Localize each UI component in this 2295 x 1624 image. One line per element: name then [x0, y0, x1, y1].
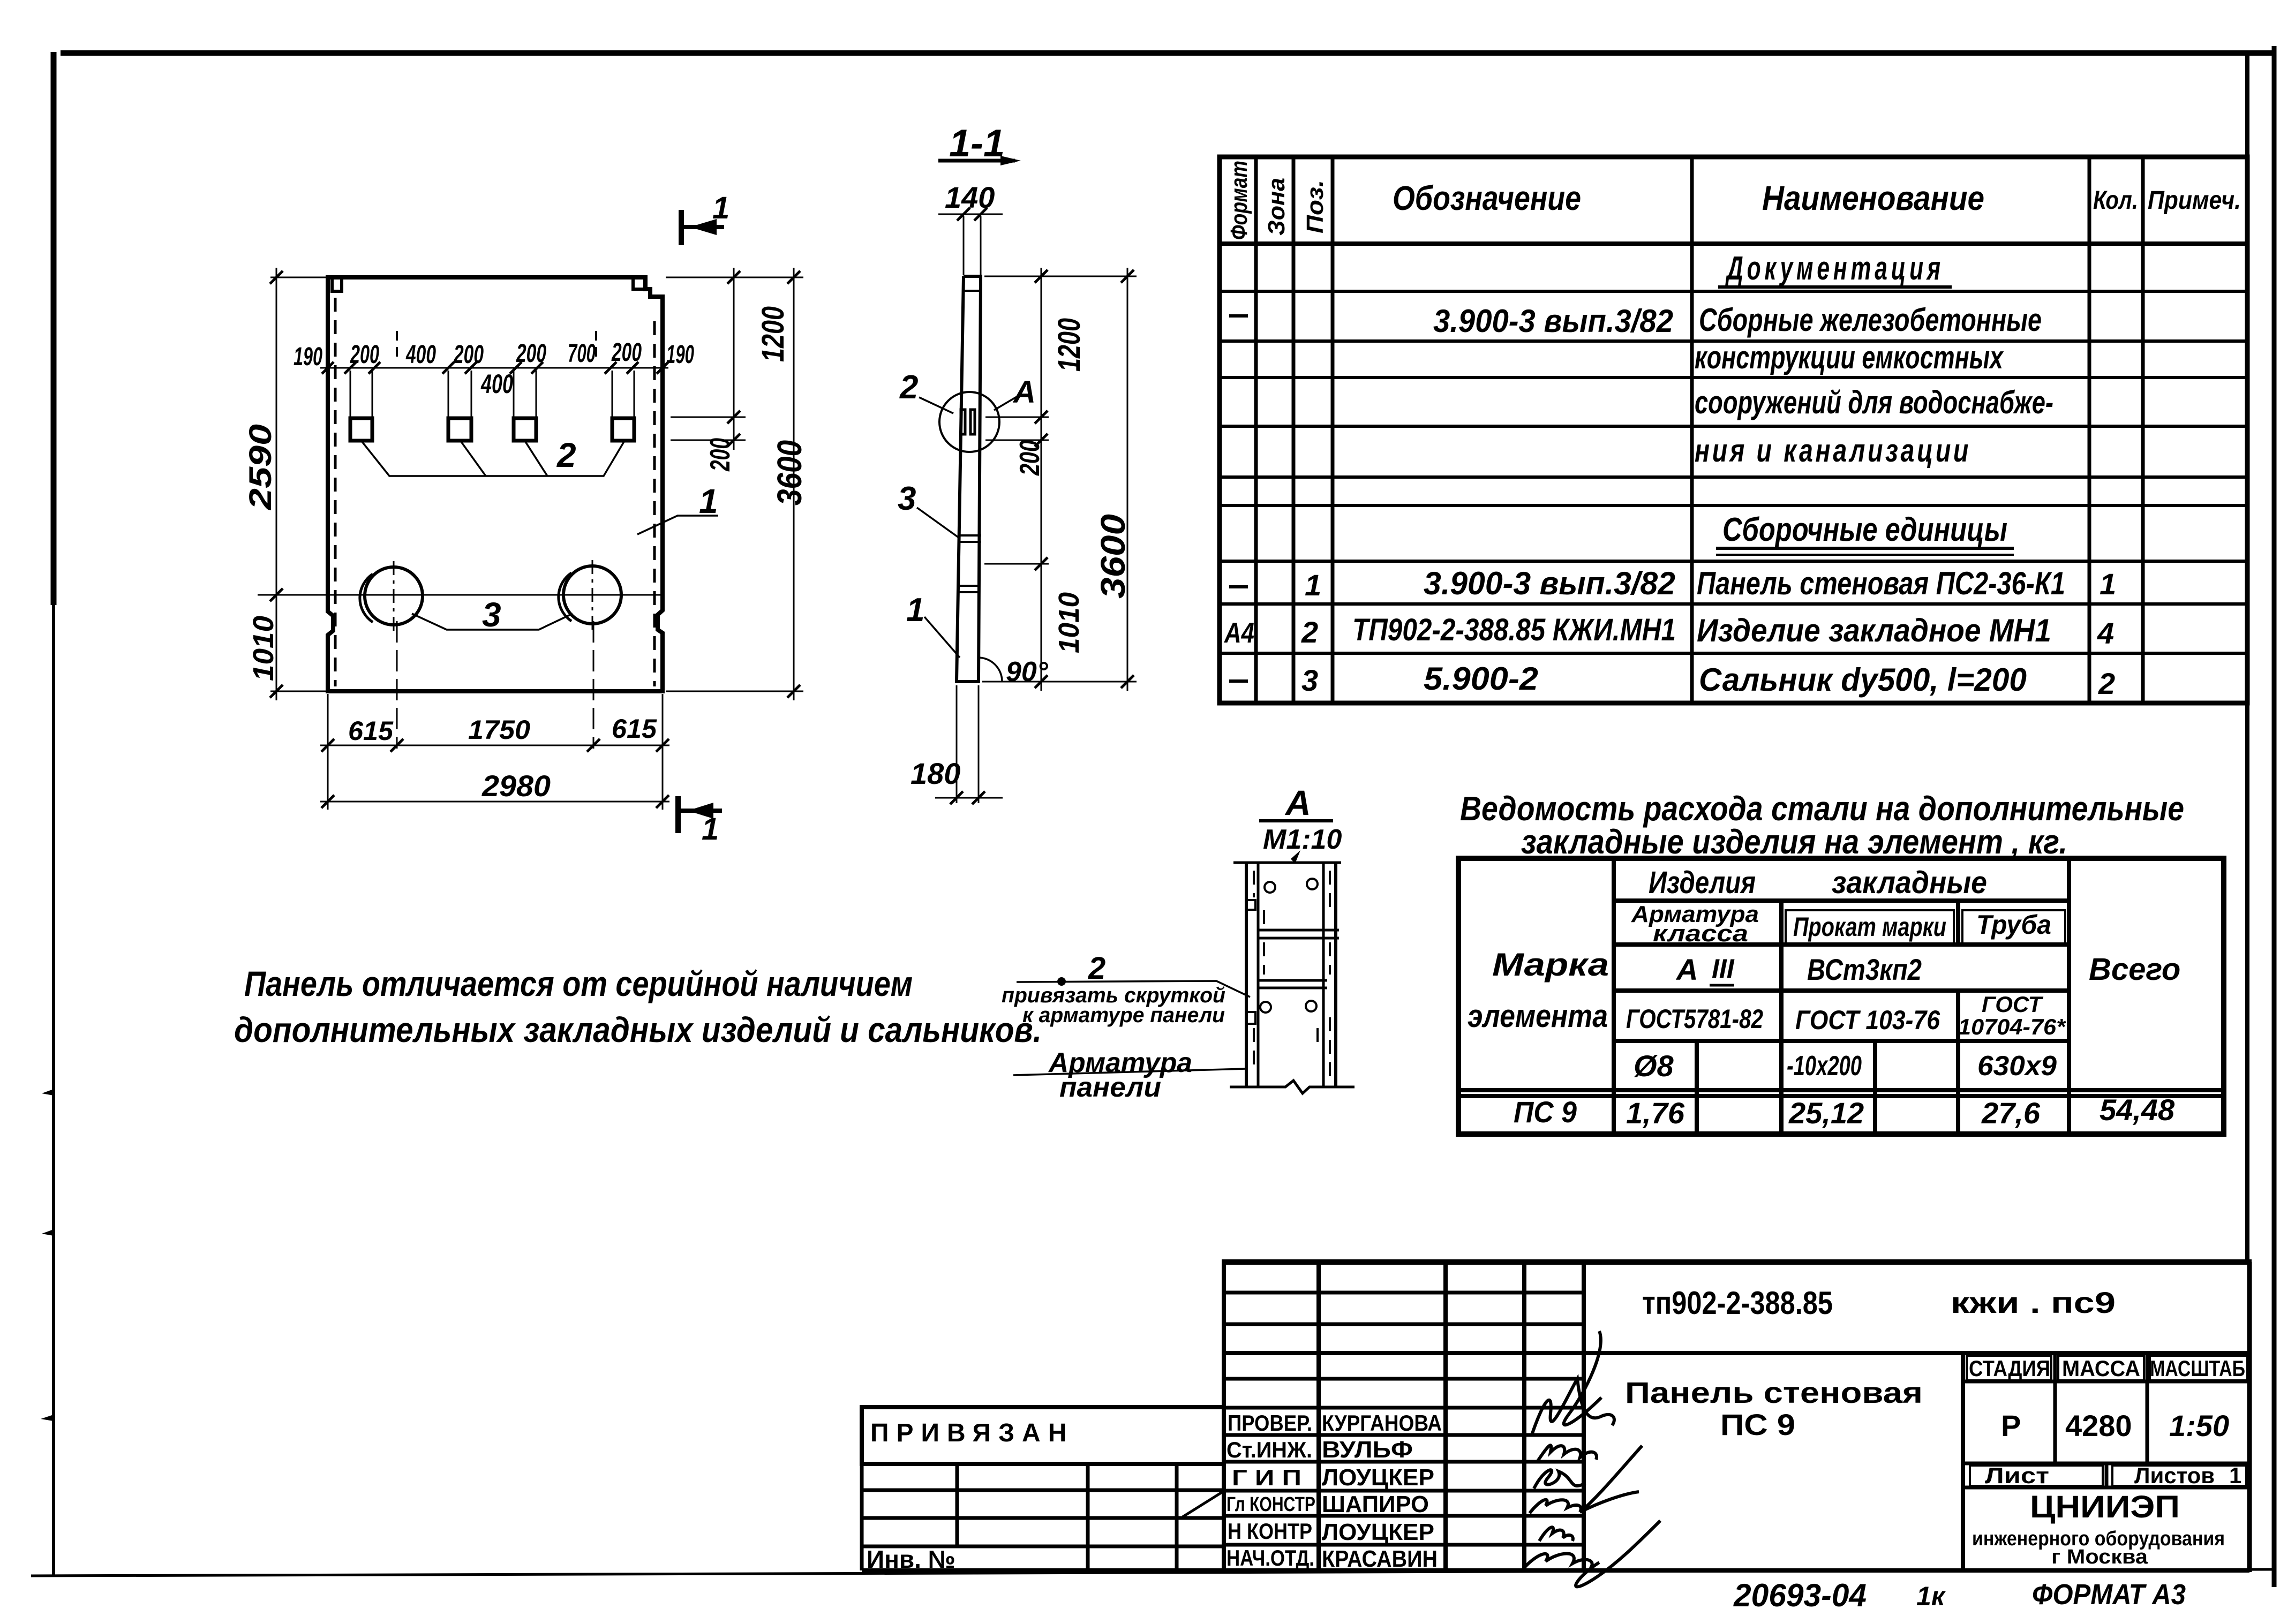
svg-text:конструкции емкостных: конструкции емкостных [1695, 339, 2004, 375]
underline arrow [1000, 156, 1021, 165]
right inner dim extensions [982, 276, 1137, 682]
svg-text:ГОСТ5781-82: ГОСТ5781-82 [1626, 1004, 1763, 1034]
centerline through holes [258, 594, 664, 596]
right inner dim line [1041, 268, 1042, 691]
leader 2 detail [1017, 981, 1250, 997]
svg-text:тп902-2-388.85: тп902-2-388.85 [1642, 1285, 1833, 1321]
svg-text:ПРИВЯЗАН: ПРИВЯЗАН [870, 1419, 1074, 1447]
section mark bottom [678, 796, 722, 847]
panel left dashed edge [334, 298, 337, 686]
svg-text:25,12: 25,12 [1788, 1096, 1864, 1130]
right dim extension y822 [671, 440, 746, 441]
stadia column divider [1961, 1353, 1965, 1570]
svg-text:1: 1 [712, 191, 729, 225]
svg-text:2: 2 [899, 369, 918, 406]
signature krasavin [1523, 1554, 1592, 1569]
left dim extension top [270, 277, 331, 278]
svg-text:1: 1 [2229, 1463, 2241, 1488]
spec verticals [1256, 157, 2143, 703]
svg-text:Всего: Всего [2089, 952, 2180, 987]
svg-text:3600: 3600 [770, 440, 809, 505]
extension 140 to wall [963, 216, 965, 275]
svg-text:Обозначение: Обозначение [1393, 179, 1581, 217]
svg-text:ШАПИРО: ШАПИРО [1322, 1491, 1429, 1517]
flourish long 3 [1576, 1521, 1660, 1587]
SECTION: bottom annotations [1733, 1577, 2186, 1613]
sealing mark upper [959, 535, 981, 542]
SECTION: title block [862, 1262, 2252, 1587]
svg-text:Панель отличается от серийной: Панель отличается от серийной наличием [244, 964, 913, 1003]
top dim line [320, 367, 668, 369]
right dim line 1200/200 [733, 268, 735, 450]
rebar circle top left [1265, 882, 1275, 893]
detail column right outer [1334, 863, 1337, 1087]
right outer dim line 3600 [1127, 268, 1128, 691]
spec outer frame [1220, 157, 2247, 703]
svg-text:3: 3 [1301, 663, 1318, 697]
svg-text:Ø8: Ø8 [1634, 1049, 1674, 1083]
svg-text:закладные: закладные [1832, 865, 1987, 900]
svg-text:1200: 1200 [1052, 318, 1087, 372]
diagonal mark [1183, 1492, 1223, 1517]
svg-text:1200: 1200 [756, 306, 791, 362]
steel horizontals [1458, 901, 2224, 1096]
svg-text:Марка: Марка [1492, 947, 1609, 983]
detail bottom line with break [1230, 1081, 1355, 1093]
dim 180 line [935, 797, 1003, 799]
leader plate 2c [525, 442, 547, 476]
svg-text:1: 1 [2100, 567, 2116, 601]
svg-text:Г И П: Г И П [1232, 1465, 1301, 1490]
svg-text:Документация: Документация [1725, 250, 1944, 287]
svg-text:панели: панели [1059, 1072, 1161, 1103]
inner dashes [1254, 871, 1330, 1076]
embed plate 2a [350, 418, 372, 441]
svg-text:ФОРМАТ А3: ФОРМАТ А3 [2032, 1578, 2186, 1611]
top dim ticks [322, 362, 668, 374]
row line under doc number [1224, 1351, 2249, 1355]
spec header bottom [1220, 241, 2247, 246]
spec row lines [1220, 291, 2247, 653]
svg-text:дополнительных закладных издел: дополнительных закладных изделий и сальн… [234, 1010, 1042, 1049]
center dash marks [396, 331, 398, 358]
detail column left outer [1245, 863, 1248, 1087]
right dim line 3600 [793, 268, 795, 700]
rung 2 [1259, 980, 1327, 988]
detail circle A [939, 392, 999, 452]
svg-text:2: 2 [2098, 667, 2115, 700]
svg-text:90°: 90° [1006, 656, 1049, 688]
svg-text:200: 200 [350, 341, 379, 369]
extension from holes to bottom dims [396, 621, 398, 749]
svg-text:Н КОНТР: Н КОНТР [1228, 1519, 1312, 1544]
left notch upper [1247, 900, 1255, 910]
svg-text:ВУЛЬФ: ВУЛЬФ [1322, 1437, 1413, 1463]
svg-text:Сборочные единицы: Сборочные единицы [1722, 511, 2007, 548]
bottom dim ticks 2 [321, 795, 669, 808]
svg-text:2: 2 [1088, 951, 1105, 986]
detail top line [1233, 862, 1341, 864]
svg-text:1:50: 1:50 [2169, 1409, 2229, 1442]
svg-text:Ст.ИНЖ.: Ст.ИНЖ. [1226, 1437, 1312, 1462]
svg-text:54,48: 54,48 [2100, 1093, 2175, 1127]
wall top cap tick [962, 290, 982, 292]
svg-text:Гл КОНСТР: Гл КОНСТР [1226, 1493, 1315, 1516]
signature vulf [1537, 1445, 1597, 1462]
svg-text:1750: 1750 [468, 715, 530, 745]
leader plate 2b [461, 442, 486, 476]
svg-text:2590: 2590 [243, 424, 278, 510]
svg-text:190: 190 [294, 343, 322, 371]
svg-text:3600: 3600 [1094, 514, 1132, 599]
left dim extension bottom [270, 691, 331, 692]
top dim extension lines to plates [350, 371, 634, 417]
margin tick 2 [42, 1229, 54, 1236]
svg-text:А: А [1012, 375, 1036, 410]
leader holes to label 3 [412, 614, 573, 630]
leader plates to label 2 [362, 442, 624, 476]
underline sborochnye [1716, 547, 2014, 550]
svg-text:1010: 1010 [247, 616, 280, 681]
svg-text:ГОСТ 103-76: ГОСТ 103-76 [1795, 1005, 1940, 1035]
svg-text:1к: 1к [1916, 1581, 1946, 1611]
signature shapiro [1530, 1500, 1581, 1513]
hole circle left [365, 567, 423, 625]
border left thick upper part [51, 52, 57, 605]
svg-text:4280: 4280 [2065, 1409, 2132, 1442]
label 1 leader [637, 516, 718, 534]
svg-text:2980: 2980 [481, 769, 551, 803]
SECTION: section 1-1 [898, 122, 1137, 804]
svg-text:элемента: элемента [1468, 998, 1608, 1034]
svg-text:СТАДИЯ: СТАДИЯ [1969, 1356, 2050, 1381]
title block top [1222, 1259, 2252, 1265]
svg-text:Изделие закладное МН1: Изделие закладное МН1 [1697, 613, 2051, 648]
rung 1 [1259, 930, 1339, 938]
svg-text:Панель стеновая: Панель стеновая [1625, 1376, 1923, 1409]
svg-text:4: 4 [2097, 616, 2114, 650]
leader 3 section [917, 508, 959, 538]
ticks 3600 [787, 271, 800, 698]
svg-text:ПРОВЕР.: ПРОВЕР. [1228, 1410, 1312, 1436]
border right inner [2245, 54, 2249, 1264]
left notch lower [1247, 1012, 1255, 1024]
dim 140 line [938, 214, 1003, 215]
svg-text:615: 615 [612, 714, 657, 744]
detail column left inner [1257, 863, 1260, 1087]
svg-text:5.900-2: 5.900-2 [1424, 661, 1538, 697]
bottom dim ticks 1 [321, 739, 669, 752]
svg-text:класса: класса [1653, 920, 1748, 947]
extension 180 [956, 685, 958, 803]
svg-text:200: 200 [1014, 440, 1045, 476]
svg-text:10704-76*: 10704-76* [1958, 1014, 2066, 1039]
underline dokumentacia [1718, 285, 1952, 289]
left grid horizontals [862, 1490, 1224, 1546]
svg-text:ПС 9: ПС 9 [1720, 1408, 1795, 1441]
svg-text:М1:10: М1:10 [1263, 824, 1342, 855]
row10 dash [1229, 679, 1248, 683]
svg-text:3.900-3 вып.3/82: 3.900-3 вып.3/82 [1424, 565, 1675, 601]
bottom dim line 2 [320, 801, 669, 803]
extension panel edges down [327, 694, 329, 810]
bottom dim line 1 [320, 745, 669, 746]
svg-text:2: 2 [1301, 615, 1318, 649]
svg-text:Наименование: Наименование [1762, 179, 1984, 217]
flourish long 1 [1564, 1331, 1601, 1425]
SECTION: detail A and note [234, 783, 1355, 1103]
svg-text:200: 200 [611, 338, 642, 367]
sealing mark lower [958, 586, 980, 592]
svg-text:НАЧ.ОТД.: НАЧ.ОТД. [1226, 1545, 1314, 1570]
detail top arrow [1291, 850, 1300, 864]
rebar circle top right [1307, 879, 1318, 889]
svg-text:А: А [1284, 783, 1311, 822]
stadia grid [1963, 1353, 2249, 1487]
svg-text:ВСт3кп2: ВСт3кп2 [1807, 953, 1922, 986]
embed plate 2d [612, 418, 634, 441]
svg-text:к арматуре панели: к арматуре панели [1022, 1003, 1225, 1027]
wall outline [957, 276, 981, 682]
SECTION: steel table [1458, 789, 2224, 1134]
svg-text:КРАСАВИН: КРАСАВИН [1322, 1546, 1438, 1572]
border top [61, 50, 2276, 56]
svg-text:Поз.: Поз. [1302, 180, 1328, 233]
svg-text:Кол.: Кол. [2093, 186, 2138, 215]
svg-text:Изделия: Изделия [1649, 865, 1756, 900]
SECTION: specification table [1220, 157, 2247, 703]
panel outline [328, 277, 663, 691]
svg-text:-10х200: -10х200 [1787, 1051, 1862, 1082]
svg-text:1: 1 [906, 592, 924, 629]
svg-text:1: 1 [1305, 568, 1321, 602]
svg-text:200: 200 [516, 339, 546, 368]
svg-text:700: 700 [568, 339, 596, 368]
embedded item in wall [961, 410, 965, 434]
armatura leader line [1013, 1069, 1246, 1075]
border left [52, 52, 55, 1576]
svg-text:кжи . пс9: кжи . пс9 [1951, 1286, 2116, 1319]
stadia header inner boxes [1967, 1356, 2247, 1486]
right dim extension y779 [671, 417, 746, 418]
central grid horizontals [1224, 1293, 1584, 1545]
leader dot [1057, 977, 1066, 986]
svg-text:ГОСТ: ГОСТ [1982, 992, 2044, 1017]
svg-text:Сборные железобетонные: Сборные железобетонные [1699, 302, 2042, 338]
svg-text:г Москва: г Москва [2051, 1546, 2148, 1568]
svg-text:3.900-3 вып.3/82: 3.900-3 вып.3/82 [1433, 303, 1673, 339]
steel verticals [1614, 858, 2069, 1134]
panel top-left notch tab [332, 277, 342, 291]
signature louker1 [1534, 1470, 1585, 1489]
left dim line [276, 268, 277, 700]
svg-text:Р: Р [2001, 1409, 2021, 1442]
svg-text:Листов: Листов [2134, 1463, 2215, 1488]
border right outer [2272, 46, 2277, 1587]
detail column right inner [1322, 863, 1325, 1087]
rebar circle mid left [1260, 1002, 1271, 1013]
svg-text:190: 190 [666, 341, 694, 369]
svg-text:3: 3 [482, 595, 501, 634]
signature louker2 [1539, 1527, 1573, 1541]
svg-text:1-1: 1-1 [949, 122, 1005, 165]
hole left vertical centerline [393, 561, 395, 632]
svg-text:400: 400 [405, 341, 436, 369]
svg-text:3: 3 [898, 480, 916, 517]
prokat/truba inner boxes [1786, 910, 1954, 943]
svg-text:МАСШТАБ: МАСШТАБ [2150, 1356, 2245, 1381]
svg-text:1: 1 [699, 482, 718, 520]
row2 dash [1229, 314, 1248, 318]
svg-text:ЦНИИЭП: ЦНИИЭП [2030, 1490, 2180, 1524]
svg-text:ПС 9: ПС 9 [1514, 1095, 1577, 1129]
right dim extension bottom [666, 691, 803, 692]
right dim extension y516 [666, 277, 803, 278]
svg-text:630х9: 630х9 [1977, 1051, 2057, 1082]
left grid verticals [862, 1464, 1177, 1570]
leader 1 section [924, 617, 960, 658]
panel right dashed edge [653, 321, 656, 686]
title block bottom [862, 1568, 2249, 1573]
leader A section [994, 396, 1018, 410]
svg-text:ЛОУЦКЕР: ЛОУЦКЕР [1322, 1464, 1434, 1491]
svg-text:400: 400 [480, 369, 513, 399]
detail title underline [1259, 819, 1333, 822]
svg-text:200: 200 [705, 438, 736, 472]
hole right vertical centerline [592, 560, 593, 631]
embed plate 2b [448, 418, 471, 441]
margin tick 1 [42, 1089, 54, 1096]
section mark top [681, 191, 729, 245]
svg-text:180: 180 [911, 757, 960, 790]
svg-text:Формат: Формат [1226, 161, 1252, 240]
hole circle right offset [559, 573, 571, 621]
svg-text:615: 615 [348, 716, 394, 746]
svg-text:1,76: 1,76 [1626, 1096, 1685, 1130]
svg-text:КУРГАНОВА: КУРГАНОВА [1322, 1410, 1442, 1436]
left dim tick mid [270, 588, 283, 601]
svg-text:ТП902-2-388.85 КЖИ.МН1: ТП902-2-388.85 КЖИ.МН1 [1352, 613, 1676, 647]
svg-text:Зона: Зона [1263, 178, 1290, 236]
central grid verticals [1224, 1262, 1584, 1570]
svg-text:Инв. №: Инв. № [867, 1545, 955, 1573]
margin tick 3 [41, 1415, 54, 1421]
svg-text:закладные изделия на элемент ,: закладные изделия на элемент , кг. [1521, 822, 2067, 861]
flourish long 2 [1580, 1446, 1642, 1512]
svg-text:1: 1 [702, 812, 719, 847]
rebar circle mid right [1306, 1001, 1316, 1011]
angle 90 arc [978, 658, 1002, 682]
svg-text:Панель стеновая ПС2-36-К1: Панель стеновая ПС2-36-К1 [1697, 565, 2065, 601]
svg-text:Труба: Труба [1976, 910, 2051, 940]
svg-text:МАССА: МАССА [2062, 1356, 2140, 1381]
svg-text:Лист: Лист [1985, 1463, 2049, 1488]
section title underline [938, 159, 1015, 163]
svg-text:Примеч.: Примеч. [2148, 186, 2241, 215]
signature kurganova [1532, 1379, 1614, 1435]
panel top-right notch tab [633, 277, 645, 289]
svg-text:27,6: 27,6 [1981, 1096, 2041, 1130]
hole circle right [563, 566, 621, 624]
ticks 1200/200 [727, 271, 740, 447]
left dim tick top [270, 271, 283, 284]
svg-text:ния и канализации: ния и канализации [1695, 433, 1971, 469]
SECTION: front view [243, 191, 809, 847]
svg-text:2: 2 [556, 436, 576, 474]
steel outer frame [1458, 858, 2224, 1134]
svg-text:III: III [1712, 954, 1735, 984]
left dim tick bottom [270, 685, 283, 698]
privyazan box [862, 1407, 1224, 1464]
svg-text:ЛОУЦКЕР: ЛОУЦКЕР [1322, 1519, 1434, 1545]
svg-text:сооружений для водоснабже-: сооружений для водоснабже- [1695, 384, 2053, 420]
svg-text:Сальник dу500, l=200: Сальник dу500, l=200 [1699, 662, 2027, 698]
svg-text:Прокат марки: Прокат марки [1793, 912, 1946, 942]
svg-text:200: 200 [453, 341, 484, 369]
embed plate 2c [514, 418, 536, 441]
svg-text:А4: А4 [1223, 617, 1254, 649]
svg-text:1010: 1010 [1053, 592, 1085, 653]
svg-text:20693-04: 20693-04 [1733, 1577, 1867, 1613]
hole circle left offset [360, 574, 373, 622]
row8 dash [1229, 585, 1248, 588]
leader 2 section [919, 397, 953, 413]
title block right edge [2247, 1262, 2252, 1572]
border bottom [31, 1569, 2276, 1576]
svg-text:А: А [1675, 953, 1698, 986]
